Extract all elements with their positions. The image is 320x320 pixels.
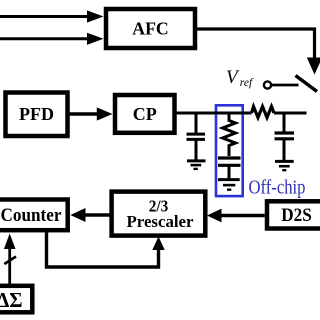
off-chip blue box: [216, 105, 243, 196]
svg-text:ref: ref: [240, 77, 254, 89]
bus slash tick: [4, 257, 16, 265]
svg-text:PFD: PFD: [19, 104, 54, 124]
svg-text:Counter: Counter: [1, 206, 62, 226]
switch blade: [296, 76, 318, 92]
label Vref: [226, 67, 254, 89]
svg-text:CP: CP: [133, 104, 157, 124]
block AFC (box): [106, 9, 195, 48]
wire AFC input 2: [0, 33, 104, 45]
svg-text:D2S: D2S: [281, 206, 312, 226]
wire D2S to Prescaler (arrow): [207, 209, 265, 223]
block Counter (box): [0, 200, 68, 231]
switch terminal circle: [264, 81, 271, 88]
wire after resistor R2: [274, 112, 307, 115]
ground (C1): [187, 161, 206, 169]
capacitor C2 (off-chip): [218, 158, 241, 179]
wire Counter to Prescaler modulus (feedback, arrow up): [47, 233, 165, 268]
capacitor C3: [275, 113, 295, 160]
svg-text:AFC: AFC: [132, 19, 169, 39]
wire switch: [272, 84, 299, 87]
wire AFC output to switch (with down arrow): [195, 29, 320, 75]
block DeltaSigma (box): [0, 286, 32, 313]
block D2S (box): [267, 201, 320, 228]
svg-text:Off-chip: Off-chip: [249, 177, 306, 199]
wire Prescaler to Counter (arrow): [70, 208, 109, 222]
wire DeltaSigma to Counter (bus arrow): [4, 234, 16, 284]
svg-text:Prescaler: Prescaler: [127, 212, 194, 231]
block 2/3 Prescaler (box): [112, 192, 206, 236]
wire PFD to CP (arrow): [68, 107, 113, 120]
block PFD (box): [6, 93, 68, 137]
resistor R2 (series): [252, 107, 275, 118]
label 2/3 Prescaler: [127, 197, 194, 232]
ground (C2): [218, 180, 240, 190]
wire CP to loop filter: [175, 112, 252, 115]
block CP (box): [115, 95, 175, 133]
resistor R1 (vertical, off-chip): [223, 113, 236, 156]
capacitor C1: [187, 113, 206, 160]
ground (C3): [275, 161, 294, 170]
svg-text:ΔΣ: ΔΣ: [0, 288, 23, 312]
wire AFC input 1: [0, 10, 104, 22]
